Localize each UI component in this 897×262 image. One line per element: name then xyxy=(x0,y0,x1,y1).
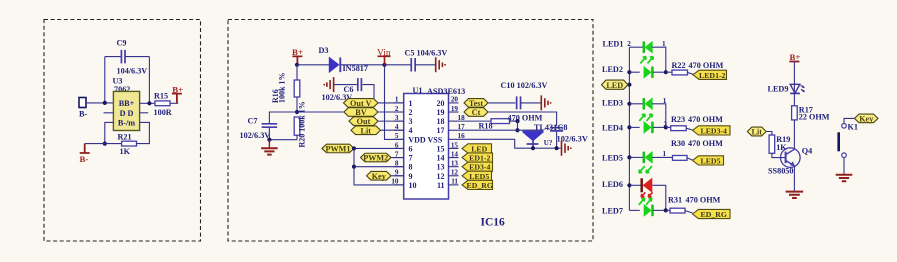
svg-text:R23: R23 xyxy=(671,115,685,124)
svg-text:Ct: Ct xyxy=(472,108,481,117)
wire C6 to left ground xyxy=(334,84,357,86)
svg-text:ED_RG: ED_RG xyxy=(701,210,727,219)
wire B+ node to R16 top xyxy=(296,65,298,80)
port BV xyxy=(344,108,378,117)
U1 right pin 20 stub xyxy=(449,102,459,104)
port Test xyxy=(464,99,488,108)
wire to R31 xyxy=(666,209,670,211)
LED7 light arrows xyxy=(639,198,652,205)
svg-text:17: 17 xyxy=(437,126,445,135)
wire LED2 right xyxy=(653,71,666,73)
U1 right pin 13 stub xyxy=(449,166,459,168)
svg-text:LED1: LED1 xyxy=(603,40,624,49)
dashed frame left block xyxy=(44,20,201,242)
wire R31 to port xyxy=(685,211,693,213)
svg-text:1: 1 xyxy=(662,40,666,48)
resistor R17 xyxy=(792,106,798,120)
svg-text:Q4: Q4 xyxy=(802,146,812,155)
svg-text:LED9: LED9 xyxy=(768,85,789,94)
diode D3 xyxy=(329,58,338,73)
wire C8 bottom to rail xyxy=(556,131,558,148)
junction node B pin17 xyxy=(515,128,519,132)
junction left rail at LED4 xyxy=(627,125,631,129)
svg-text:15: 15 xyxy=(437,144,445,153)
ground right of C10 xyxy=(541,95,550,110)
wire pin16 to rail xyxy=(459,139,561,148)
capacitor C8 xyxy=(550,128,563,131)
svg-text:LED3-4: LED3-4 xyxy=(701,126,728,135)
wire R15 right to B+ xyxy=(170,102,178,104)
svg-text:19: 19 xyxy=(437,108,445,117)
svg-text:470 OHM: 470 OHM xyxy=(688,115,723,124)
port LED pin15 xyxy=(462,144,492,153)
wire LED2 left xyxy=(629,71,639,73)
op-amp U1 body xyxy=(404,94,449,200)
U1 right pin 12 stub xyxy=(449,175,459,177)
svg-text:C7: C7 xyxy=(248,117,258,126)
U1 left pin 10 stub xyxy=(394,184,404,186)
svg-text:11: 11 xyxy=(451,178,458,186)
svg-text:R20 100k 1%: R20 100k 1% xyxy=(298,101,307,147)
svg-text:LED: LED xyxy=(471,144,487,153)
port LED1-2 pin14 xyxy=(462,153,493,162)
resistor R30 xyxy=(673,156,688,161)
svg-text:100k 1%: 100k 1% xyxy=(278,73,287,103)
wire R21 left xyxy=(105,143,122,145)
wire R19 to Q4 base xyxy=(772,153,786,157)
wire R17 to Q4 collector xyxy=(793,120,795,149)
wire LED5 left xyxy=(629,156,643,158)
port LED_RG xyxy=(693,209,731,218)
net flag Lit xyxy=(747,127,766,136)
svg-text:Lit: Lit xyxy=(752,128,763,137)
svg-text:13: 13 xyxy=(437,163,445,172)
svg-text:LED5: LED5 xyxy=(701,156,721,165)
svg-text:D D: D D xyxy=(120,109,134,118)
svg-text:LED7: LED7 xyxy=(602,206,623,215)
svg-text:Test: Test xyxy=(469,99,484,108)
wire LED6 left xyxy=(629,184,641,186)
svg-text:TL431: TL431 xyxy=(534,123,557,132)
svg-text:VDD VSS: VDD VSS xyxy=(408,136,442,145)
power B+ right xyxy=(789,61,799,63)
U1 right pin 16 stub xyxy=(449,138,459,140)
wire LED5 right xyxy=(652,156,673,158)
junction node B- R21 left xyxy=(103,142,107,146)
dashed frame middle block xyxy=(228,20,593,242)
wire node A down to pin17 net xyxy=(517,121,519,130)
LED D LED2 xyxy=(651,66,654,78)
svg-text:12: 12 xyxy=(437,172,445,181)
wire C9 left xyxy=(105,56,121,58)
wire R23 to port xyxy=(686,128,692,130)
connector P? B- xyxy=(79,98,86,108)
svg-text:K1: K1 xyxy=(848,123,858,132)
shunt regulator U? TL431 xyxy=(523,130,544,132)
svg-text:R31: R31 xyxy=(668,196,682,205)
wire LED1 left xyxy=(629,46,643,48)
LED3-4 light arrows xyxy=(639,114,652,121)
junction left rail at LED6 xyxy=(627,183,631,187)
wire C7 bottom to R20 bottom xyxy=(269,128,297,140)
svg-text:10: 10 xyxy=(409,181,417,190)
resistor R23 xyxy=(671,126,687,131)
wire D3 cathode to Vin node xyxy=(340,64,384,66)
LED6 light arrows red xyxy=(641,192,652,197)
svg-text:LED2: LED2 xyxy=(602,65,623,74)
svg-text:R22: R22 xyxy=(672,61,686,70)
svg-text:R30: R30 xyxy=(671,139,685,148)
svg-text:Out V: Out V xyxy=(350,99,372,108)
wire node BV to C7 top corner xyxy=(269,112,297,123)
resistor R20 xyxy=(294,117,300,135)
svg-text:LED1-2: LED1-2 xyxy=(699,71,726,80)
svg-text:PWM1: PWM1 xyxy=(325,145,350,154)
svg-text:D3: D3 xyxy=(319,46,329,55)
svg-text:C8: C8 xyxy=(558,123,568,132)
svg-text:5: 5 xyxy=(395,132,399,140)
port Out V xyxy=(344,99,379,108)
ground left of C6 xyxy=(324,77,333,92)
wire LED9 to R17 xyxy=(793,84,795,106)
junction node BV divider xyxy=(295,110,299,114)
U1 left pin 2 stub xyxy=(394,111,404,113)
U1 left pin 4 stub xyxy=(394,129,404,131)
port Ct xyxy=(464,108,488,117)
junction LED2 R22 xyxy=(664,70,668,74)
wire C9 left drop to node BB+ xyxy=(104,57,106,103)
capacitor C7 xyxy=(262,124,278,127)
svg-text:R21: R21 xyxy=(118,132,132,141)
svg-text:12: 12 xyxy=(451,169,459,177)
svg-text:LED: LED xyxy=(606,81,623,90)
wire C9 right drop to node R15 xyxy=(148,57,150,104)
svg-text:C5 104/6.3V: C5 104/6.3V xyxy=(405,48,448,57)
U1 right pin 17 stub xyxy=(449,129,459,131)
net flag LED xyxy=(602,80,629,89)
svg-text:14: 14 xyxy=(437,154,445,163)
wire PWM1 to pin6 xyxy=(354,147,404,149)
svg-text:2: 2 xyxy=(627,40,631,48)
wire connector to U3 pin BB+ xyxy=(86,102,113,104)
U1 left pin 7 stub xyxy=(394,157,404,159)
svg-text:R15: R15 xyxy=(154,92,168,101)
wire LED1 right xyxy=(652,47,666,72)
LED5 light arrows xyxy=(639,166,652,173)
svg-text:LED3: LED3 xyxy=(602,99,623,108)
resistor R22 xyxy=(672,70,688,75)
svg-text:1: 1 xyxy=(663,150,667,158)
svg-text:14: 14 xyxy=(451,150,459,158)
svg-text:104/6.3V: 104/6.3V xyxy=(117,67,148,76)
U1 left pin 3 stub xyxy=(394,120,404,122)
wire LED4 right xyxy=(653,126,666,128)
junction PWM1 pin6 xyxy=(352,146,356,150)
svg-text:LED4: LED4 xyxy=(602,123,623,132)
resistor R31 xyxy=(670,208,685,213)
wire R20 bottom xyxy=(296,135,298,140)
port Lit xyxy=(351,126,381,135)
wire R21 right to B-/m right pin xyxy=(137,122,150,143)
svg-text:102/6.3V: 102/6.3V xyxy=(240,131,271,140)
U1 right pin 18 stub xyxy=(449,120,459,122)
svg-text:7: 7 xyxy=(409,154,413,163)
wire OutV port to pin1 xyxy=(378,102,404,104)
svg-text:470 OHM: 470 OHM xyxy=(689,61,724,70)
junction node Vin xyxy=(382,63,386,67)
svg-text:Out: Out xyxy=(357,117,371,126)
wire LED3 right xyxy=(652,104,666,128)
ground below C7 xyxy=(268,140,270,148)
junction node BB+ xyxy=(103,101,107,105)
svg-text:1: 1 xyxy=(409,99,413,108)
wire R18 to node A xyxy=(510,120,518,122)
wire OutV node riser to C6 xyxy=(363,85,375,103)
wire Key to pin9 xyxy=(391,175,404,177)
junction LED4 R23 xyxy=(664,125,668,129)
wire PWM2 to pin7 xyxy=(391,157,404,159)
wire K1 to ground xyxy=(843,158,845,175)
svg-text:IC16: IC16 xyxy=(481,217,506,229)
svg-text:ED1-2: ED1-2 xyxy=(469,154,490,163)
U3 left pin B-/m wire xyxy=(105,122,114,143)
svg-text:2: 2 xyxy=(409,108,413,117)
capacitor C6 xyxy=(358,78,362,91)
capacitor C5 xyxy=(411,58,415,72)
U1 left pin 8 stub xyxy=(394,166,404,168)
ground right of C8 rail xyxy=(562,141,571,156)
wire C10 to ground xyxy=(521,102,541,104)
port PWM2 xyxy=(361,153,392,162)
svg-text:C10 102/6.3V: C10 102/6.3V xyxy=(501,81,548,90)
ground right of C5 xyxy=(436,57,445,72)
svg-text:LED6: LED6 xyxy=(602,180,623,189)
wire PWM1 to pin8 xyxy=(354,166,404,168)
svg-text:B-: B- xyxy=(79,110,88,119)
svg-text:Key: Key xyxy=(372,172,387,181)
port LED1-2 xyxy=(693,70,727,79)
svg-text:SS8050: SS8050 xyxy=(768,167,793,176)
svg-text:ASD3E613: ASD3E613 xyxy=(427,87,465,96)
U3 right pin D stub xyxy=(140,112,149,114)
wire B+ to D3 anode xyxy=(297,64,329,66)
wire Vin node to C5 xyxy=(385,64,411,66)
junction node OutV pin1 xyxy=(372,101,376,105)
wire Key flag to K1 xyxy=(844,118,855,123)
svg-text:100R: 100R xyxy=(154,108,172,117)
svg-text:U?: U? xyxy=(544,139,553,147)
U1 left pin 6 stub xyxy=(394,147,404,149)
ground below K1 xyxy=(836,175,853,181)
LED D LED9 xyxy=(790,84,800,93)
port LED3-4 pin13 xyxy=(462,162,493,171)
U1 right pin 15 stub xyxy=(449,147,459,149)
svg-text:20: 20 xyxy=(437,99,445,108)
ground below Q4 xyxy=(786,192,804,198)
wire Ct to C8 top xyxy=(488,112,557,126)
wire Lit port to pin4 xyxy=(381,129,404,131)
svg-text:BB+: BB+ xyxy=(119,99,135,108)
ground symbol below C7 xyxy=(261,148,278,154)
wire LED7 right xyxy=(653,209,666,211)
junction node A R18 out xyxy=(515,119,519,123)
power B- bottom xyxy=(80,144,90,153)
wire pin17 to TL431 xyxy=(459,129,544,131)
LED D LED5 xyxy=(643,152,646,164)
wire C9 right xyxy=(125,56,149,58)
svg-text:LED5: LED5 xyxy=(602,153,623,162)
junction left rail at LED flag xyxy=(627,83,631,87)
wire Q4 emitter to ground xyxy=(793,166,795,191)
power B+ left block xyxy=(172,94,182,104)
svg-text:BV: BV xyxy=(355,108,366,117)
LED D LED3 xyxy=(643,98,646,110)
svg-text:19: 19 xyxy=(451,105,459,113)
switch K1 xyxy=(842,124,847,129)
wire R16 bottom to node BV xyxy=(296,97,298,112)
svg-text:B+: B+ xyxy=(172,85,183,95)
svg-text:ED_RG: ED_RG xyxy=(467,181,493,190)
svg-text:ED3-4: ED3-4 xyxy=(469,163,490,172)
resistor R21 xyxy=(122,141,137,146)
wire B+ to LED9 xyxy=(793,62,795,85)
svg-text:13: 13 xyxy=(451,159,459,167)
U1 right pin 14 stub xyxy=(449,157,459,159)
capacitor C10 xyxy=(517,96,521,109)
U1 left pin 1 stub xyxy=(394,102,404,104)
svg-text:4: 4 xyxy=(409,126,413,135)
wire R22 to port xyxy=(688,73,694,75)
resistor R15 xyxy=(155,101,170,106)
svg-text:U1: U1 xyxy=(413,86,423,95)
svg-text:22 OHM: 22 OHM xyxy=(799,113,830,122)
junction PWM1 pin8 xyxy=(352,165,356,169)
power B+ middle block xyxy=(292,56,302,64)
svg-text:18: 18 xyxy=(437,117,445,126)
U1 left pin 9 stub xyxy=(394,175,404,177)
svg-text:9: 9 xyxy=(409,172,413,181)
resistor R19 xyxy=(769,135,775,153)
LED D LED4 xyxy=(651,122,654,133)
svg-text:1K: 1K xyxy=(776,143,787,152)
svg-text:B-/m: B-/m xyxy=(118,119,135,128)
svg-text:R18: R18 xyxy=(479,121,493,130)
wire PWM1 bus down xyxy=(354,148,404,184)
svg-text:C9: C9 xyxy=(117,39,127,48)
junction left rail at LED5 xyxy=(627,155,631,159)
LED D LED6 red xyxy=(640,178,643,192)
junction left rail at LED3 xyxy=(627,102,631,106)
U3 right pin BB+ to R15 xyxy=(140,102,155,104)
junction node C7 ground xyxy=(267,138,271,142)
LED D LED1 xyxy=(643,41,646,53)
wire LED6 right xyxy=(652,185,666,210)
junction node R15 left xyxy=(147,101,151,105)
wire node to B- power xyxy=(85,143,105,145)
junction LED7 R31 xyxy=(664,208,668,212)
junction C8 rail xyxy=(555,146,559,150)
svg-text:1: 1 xyxy=(663,97,667,105)
junction left rail at LED2 xyxy=(627,70,631,74)
junction node B+ D3 R16 xyxy=(295,63,299,67)
wire node BV to BV flag xyxy=(297,111,344,113)
svg-text:15: 15 xyxy=(451,141,459,149)
wire pin18 to R18 xyxy=(459,120,492,122)
port LED5 pin12 xyxy=(462,171,492,180)
port PWM1 xyxy=(322,144,354,153)
svg-text:B-: B- xyxy=(80,154,89,164)
svg-text:LED5: LED5 xyxy=(469,172,489,181)
wire to R22 xyxy=(666,71,672,73)
svg-text:Lit: Lit xyxy=(361,126,372,135)
wire BV port to pin2 xyxy=(378,111,404,113)
port Out xyxy=(349,117,378,126)
net flag Key xyxy=(855,114,879,123)
transistor Q4 xyxy=(781,148,801,168)
svg-text:PWM2: PWM2 xyxy=(363,154,388,163)
svg-text:8: 8 xyxy=(409,163,413,172)
U1 left pin 5 stub xyxy=(394,138,404,140)
U3 left pin D stub xyxy=(104,112,114,114)
port LED5 xyxy=(693,156,724,165)
capacitor C9 xyxy=(121,50,125,64)
svg-text:3: 3 xyxy=(409,117,413,126)
wire R30 to port xyxy=(687,158,693,160)
wire Test to C10 xyxy=(488,102,516,104)
svg-text:470 OHM: 470 OHM xyxy=(686,196,721,205)
wire LED3 left xyxy=(629,103,643,105)
svg-text:20: 20 xyxy=(451,96,459,104)
wire LED left rail xyxy=(628,47,630,210)
U1 right pin 19 stub xyxy=(449,111,459,113)
wire LED7 left xyxy=(629,209,639,211)
wire to R23 xyxy=(666,126,671,128)
wire LED4 left xyxy=(629,126,639,128)
svg-text:B+: B+ xyxy=(292,47,303,57)
U1 right pin 11 stub xyxy=(449,184,459,186)
op-amp U3 body xyxy=(113,91,139,130)
svg-text:B+: B+ xyxy=(790,52,801,62)
junction TL431 anode rail xyxy=(531,146,535,150)
resistor R16 xyxy=(294,80,300,97)
LED D LED7 xyxy=(651,205,654,217)
wire Vin drop to U1 pin5 VDD xyxy=(385,65,404,140)
port LED_RG pin11 xyxy=(462,180,493,189)
svg-text:11: 11 xyxy=(437,181,445,190)
wire C5 to ground xyxy=(415,64,435,66)
svg-text:1K: 1K xyxy=(120,147,131,156)
port Key xyxy=(367,171,392,180)
svg-text:Vin: Vin xyxy=(377,48,391,58)
LED1-2 light arrows xyxy=(640,57,653,64)
svg-text:6: 6 xyxy=(409,144,413,153)
wire Out port to pin3 xyxy=(378,120,404,122)
wire Lit to R19 top xyxy=(766,132,772,136)
power flag Vin xyxy=(378,56,391,65)
resistor R18 xyxy=(491,119,510,124)
svg-text:Key: Key xyxy=(859,115,874,124)
svg-text:470 OHM: 470 OHM xyxy=(688,139,723,148)
port LED3-4 xyxy=(693,126,731,135)
